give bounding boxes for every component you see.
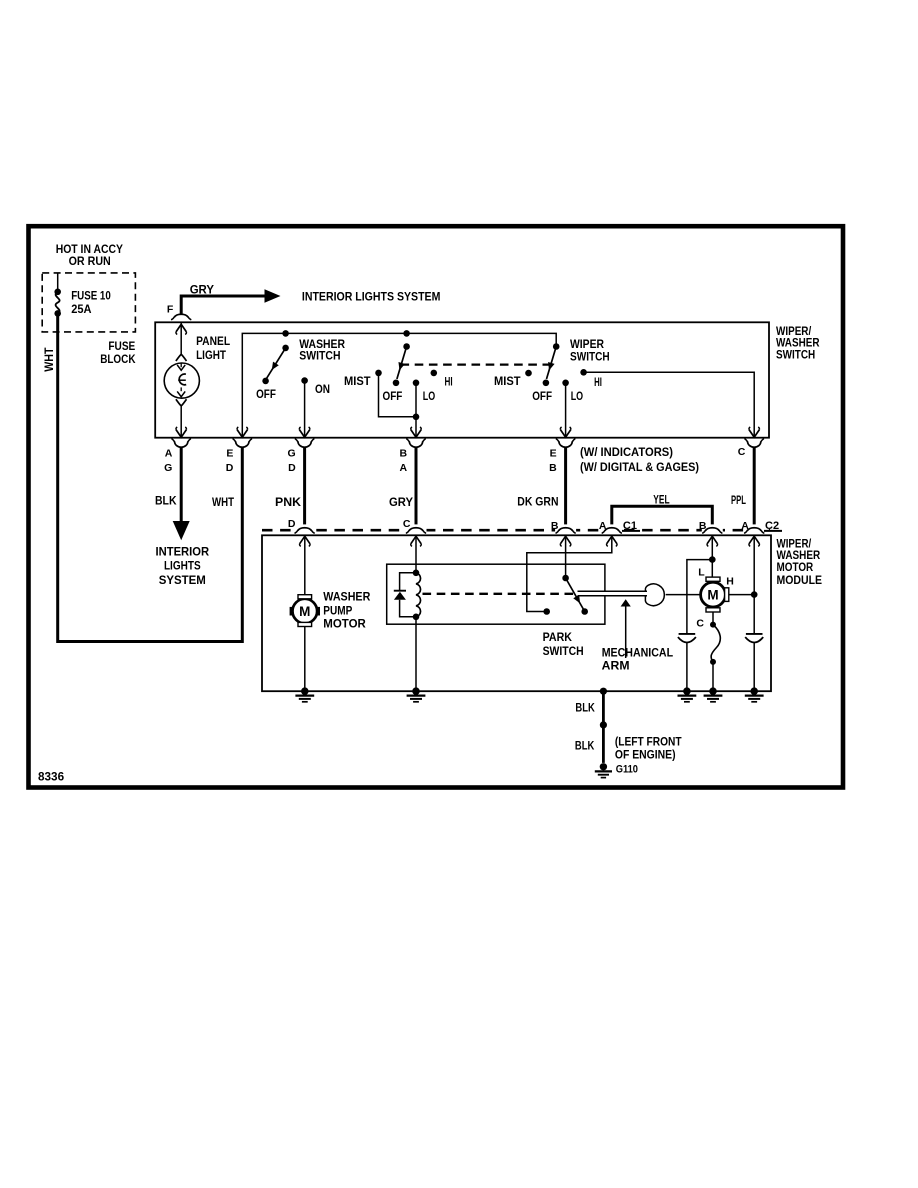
svg-text:F: F	[167, 303, 174, 315]
svg-text:B: B	[549, 462, 557, 474]
label WHT (vertical)	[42, 347, 56, 372]
wire right capacitor to ground	[753, 643, 755, 692]
wire module D to washer pump motor	[300, 535, 311, 594]
wiper/washer switch box	[155, 322, 769, 437]
terminal D (module)	[288, 518, 296, 530]
svg-text:LIGHT: LIGHT	[196, 348, 226, 362]
label INTERIOR LIGHTS SYSTEM	[302, 290, 441, 304]
svg-text:BLK: BLK	[155, 494, 177, 508]
label (LEFT FRONT OF ENGINE)	[615, 734, 682, 761]
terminal E/D	[226, 439, 252, 474]
svg-text:8336: 8336	[38, 769, 64, 783]
wire switch feed rail	[237, 333, 556, 437]
terminal B/A	[400, 439, 426, 474]
svg-text:E: E	[550, 447, 557, 459]
svg-text:G110: G110	[616, 764, 638, 776]
svg-text:MOTOR: MOTOR	[777, 560, 814, 574]
wire panel light feed (terminal F down to lamp)	[176, 322, 187, 361]
ground (washer pump motor)	[295, 687, 314, 701]
svg-text:D: D	[288, 462, 296, 474]
label WASHER SWITCH	[299, 337, 345, 363]
label FUSE 10 25A	[71, 288, 111, 316]
label GRY (wire)	[389, 495, 413, 509]
relay coil	[413, 570, 421, 621]
wiper switch mechanical link (dashed)	[401, 363, 552, 365]
svg-text:PPL: PPL	[731, 493, 746, 507]
wiper switch pole 2	[525, 343, 587, 386]
svg-text:SWITCH: SWITCH	[776, 347, 815, 361]
svg-text:(W/ DIGITAL & GAGES): (W/ DIGITAL & GAGES)	[580, 460, 699, 474]
wire lamp to terminal A	[176, 399, 187, 438]
wire left capacitor to ground	[686, 643, 688, 692]
ground G110	[595, 763, 638, 778]
svg-text:MIST: MIST	[494, 376, 521, 388]
svg-text:H: H	[726, 576, 734, 588]
wire BLK lower	[602, 725, 605, 763]
svg-text:OFF: OFF	[532, 389, 552, 403]
svg-text:E: E	[226, 447, 233, 459]
svg-text:OF ENGINE): OF ENGINE)	[615, 747, 676, 761]
label L	[698, 566, 705, 578]
svg-text:B: B	[400, 447, 408, 459]
svg-text:WASHER: WASHER	[323, 589, 370, 603]
svg-text:INTERIOR LIGHTS SYSTEM: INTERIOR LIGHTS SYSTEM	[302, 290, 441, 304]
wire BLK to G110	[600, 688, 607, 725]
terminal A (C2)	[741, 520, 749, 532]
wire wiper motor high to A(C2)	[729, 594, 754, 596]
wire pole 1 LO to terminal B	[411, 383, 422, 438]
svg-text:D: D	[226, 462, 234, 474]
wire relay coil to ground	[415, 617, 417, 691]
wire washer ON to terminal G	[299, 381, 310, 438]
label MIST (pole 1)	[344, 376, 371, 388]
panel light lamp	[164, 363, 199, 398]
wiper motor common circuit breaker	[710, 612, 720, 691]
svg-text:PUMP: PUMP	[323, 603, 352, 617]
svg-text:HI: HI	[594, 377, 602, 389]
svg-text:BLK: BLK	[575, 700, 595, 714]
svg-text:SYSTEM: SYSTEM	[159, 573, 206, 587]
washer pump motor M	[290, 595, 320, 627]
svg-text:PANEL: PANEL	[196, 334, 230, 348]
ground (relay)	[407, 687, 426, 701]
svg-text:A: A	[599, 520, 607, 532]
wire from fuse block top to fuse	[57, 273, 59, 292]
mechanical arm crank circle	[645, 584, 664, 606]
svg-text:MIST: MIST	[344, 376, 371, 388]
ground (right capacitor)	[745, 687, 764, 701]
svg-text:SWITCH: SWITCH	[543, 644, 584, 658]
label FUSE BLOCK	[100, 339, 136, 366]
wire WHT from fuse down-right-up to switch terminal E	[58, 313, 243, 641]
svg-text:LO: LO	[423, 389, 435, 403]
svg-text:PNK: PNK	[275, 495, 301, 509]
ground (left capacitor)	[678, 687, 697, 701]
svg-text:PARK: PARK	[543, 630, 573, 644]
svg-text:BLOCK: BLOCK	[100, 352, 136, 366]
wire MIST to LO junction (pole 1)	[379, 373, 420, 420]
terminal B (C2)	[699, 520, 707, 532]
svg-text:FUSE: FUSE	[108, 339, 135, 353]
wire DK GRN	[564, 447, 567, 528]
wire module A(C2) down	[749, 535, 760, 634]
svg-text:MODULE: MODULE	[777, 573, 823, 587]
wiper motor M	[701, 577, 729, 612]
label PPL	[731, 493, 746, 507]
wire YEL jumper C1-A to C2-B	[612, 506, 713, 528]
wire module C to relay coil	[411, 535, 422, 573]
capacitor (right)	[745, 634, 763, 643]
svg-text:B: B	[699, 520, 707, 532]
wire GRY with arrow to interior lights system	[181, 289, 280, 315]
terminal C (module)	[403, 518, 411, 530]
svg-text:WHT: WHT	[212, 495, 235, 509]
park switch blade	[562, 575, 584, 612]
label ON (washer)	[315, 382, 330, 396]
label H	[726, 576, 734, 588]
svg-text:FUSE 10: FUSE 10	[71, 288, 111, 302]
label PANEL LIGHT	[196, 334, 230, 362]
svg-text:GRY: GRY	[389, 495, 413, 509]
svg-text:B: B	[551, 520, 559, 532]
svg-text:WHT: WHT	[42, 347, 56, 372]
label BLK (upper)	[575, 700, 595, 714]
svg-text:M: M	[299, 604, 310, 619]
wire module B(C2) to wiper motor	[707, 535, 718, 577]
washer switch	[262, 330, 308, 384]
terminal C (switch)	[738, 439, 764, 458]
label OFF (pole 1)	[383, 389, 403, 403]
terminal A (C1)	[599, 520, 607, 532]
svg-text:SWITCH: SWITCH	[299, 349, 340, 363]
svg-text:C: C	[738, 446, 746, 458]
label BLK (lower)	[575, 738, 595, 752]
label PNK	[275, 495, 301, 509]
label YEL	[653, 493, 669, 507]
svg-text:ARM: ARM	[602, 659, 630, 673]
label OFF (pole 2)	[532, 389, 552, 403]
terminal F of wiper/washer switch	[167, 303, 191, 319]
svg-text:LO: LO	[571, 389, 583, 403]
svg-text:A: A	[741, 520, 749, 532]
wire to left capacitor	[687, 560, 712, 634]
wiper switch pole 1	[375, 330, 437, 386]
wire PNK	[303, 447, 306, 528]
label GRY	[190, 282, 214, 296]
svg-text:A: A	[400, 462, 408, 474]
terminal E/B	[549, 439, 575, 474]
wire GRY (switch B to module C)	[415, 447, 418, 528]
svg-text:C: C	[696, 617, 704, 629]
svg-text:YEL: YEL	[653, 493, 669, 507]
label MECHANICAL ARM with arrow	[602, 599, 673, 672]
svg-text:G: G	[288, 447, 296, 459]
connector C2 label	[764, 520, 782, 532]
mechanical arm	[578, 591, 648, 595]
figure number 8336	[38, 769, 64, 783]
wire PPL	[753, 447, 756, 528]
park switch contacts	[543, 608, 588, 615]
label WASHER PUMP MOTOR	[323, 589, 370, 630]
relay diode	[394, 573, 416, 617]
svg-text:MECHANICAL: MECHANICAL	[602, 645, 673, 659]
label HI (pole 2)	[594, 377, 602, 389]
svg-text:OFF: OFF	[256, 387, 276, 401]
ground (wiper motor)	[704, 687, 723, 701]
label (W/ INDICATORS) (W/ DIGITAL & GAGES)	[580, 445, 699, 474]
label HI (pole 1)	[445, 377, 453, 389]
svg-text:M: M	[707, 588, 718, 603]
svg-text:HI: HI	[445, 377, 453, 389]
connector C1 label	[622, 520, 640, 532]
label LO (pole 2)	[571, 389, 583, 403]
svg-text:INTERIOR: INTERIOR	[156, 544, 210, 558]
relay actuation link (dashed)	[423, 593, 578, 595]
label PARK SWITCH	[543, 630, 584, 658]
label MIST (pole 2)	[494, 376, 521, 388]
splice	[600, 721, 607, 728]
svg-text:LIGHTS: LIGHTS	[164, 559, 201, 573]
wire module B to park switch pivot	[560, 535, 571, 578]
svg-text:SWITCH: SWITCH	[570, 349, 610, 363]
relay box	[387, 564, 605, 624]
wire pole 2 LO to terminal E	[560, 383, 571, 438]
svg-text:BLK: BLK	[575, 738, 595, 752]
terminal B (C1)	[551, 520, 559, 532]
wire washer pump motor to ground	[304, 627, 306, 692]
label C (motor common)	[696, 617, 704, 629]
svg-text:(LEFT FRONT: (LEFT FRONT	[615, 734, 682, 748]
svg-text:ON: ON	[315, 382, 330, 396]
label DK GRN	[517, 495, 558, 509]
svg-text:MOTOR: MOTOR	[323, 616, 366, 630]
wire BLK to interior lights system	[173, 447, 190, 540]
svg-text:25A: 25A	[71, 302, 92, 316]
wire pole 2 HI to terminal C	[584, 372, 760, 437]
label HOT IN ACCY / OR RUN	[56, 242, 123, 268]
svg-text:C: C	[403, 518, 411, 530]
connector line (dashed)	[262, 529, 770, 532]
capacitor (left)	[678, 634, 696, 643]
svg-text:D: D	[288, 518, 296, 530]
svg-text:A: A	[165, 447, 173, 459]
svg-text:GRY: GRY	[190, 282, 214, 296]
svg-text:OR RUN: OR RUN	[69, 254, 111, 268]
connector terminals (cups)	[294, 524, 765, 535]
label LO (pole 1)	[423, 389, 435, 403]
label BLK	[155, 494, 177, 508]
wire crank to wiper motor	[666, 594, 701, 596]
svg-text:L: L	[698, 566, 705, 578]
wiper/washer motor module box	[262, 535, 771, 691]
wire module A to park switch contact	[527, 535, 617, 611]
svg-text:OFF: OFF	[383, 389, 403, 403]
fuse block (dashed box)	[42, 273, 135, 332]
label WHT (wire)	[212, 495, 235, 509]
svg-text:DK GRN: DK GRN	[517, 495, 558, 509]
svg-text:(W/ INDICATORS): (W/ INDICATORS)	[580, 445, 673, 459]
terminal A/G	[164, 439, 190, 474]
fuse F10 25A	[54, 289, 61, 317]
label WIPER/WASHER SWITCH	[776, 324, 820, 361]
label WIPER/WASHER MOTOR MODULE	[777, 536, 823, 587]
terminal G/D	[288, 439, 314, 474]
label OFF (washer)	[256, 387, 276, 401]
label INTERIOR LIGHTS SYSTEM (destination)	[156, 544, 210, 587]
svg-text:G: G	[164, 462, 172, 474]
label WIPER SWITCH	[570, 337, 610, 363]
